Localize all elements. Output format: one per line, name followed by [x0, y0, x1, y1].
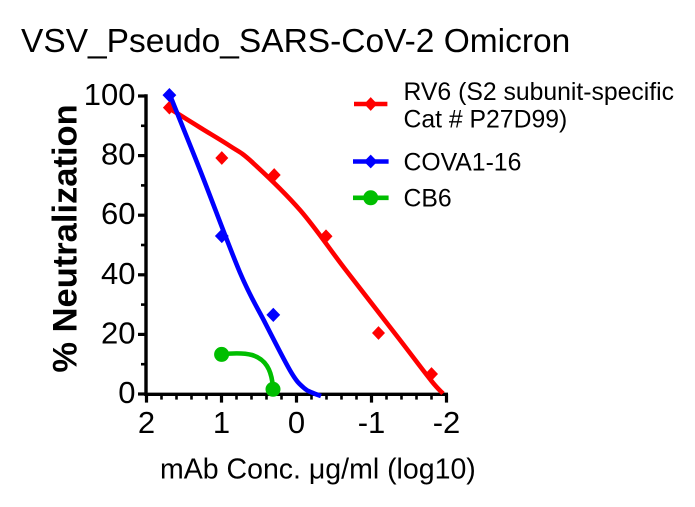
x axis line: [144, 393, 448, 396]
svg-text:60: 60: [101, 196, 135, 231]
svg-text:VSV_Pseudo_SARS-CoV-2 Omicron: VSV_Pseudo_SARS-CoV-2 Omicron: [21, 23, 570, 60]
y tick labels: [84, 77, 136, 410]
svg-text:-1: -1: [358, 405, 386, 440]
blue data markers (diamonds): [163, 88, 281, 322]
x tick labels: [138, 405, 460, 440]
svg-text:1: 1: [213, 405, 230, 440]
svg-text:mAb Conc. μg/ml (log10): mAb Conc. μg/ml (log10): [160, 453, 476, 485]
svg-text:100: 100: [84, 77, 136, 112]
red data markers (diamonds): [163, 101, 438, 381]
blue legend item: [353, 159, 389, 164]
y minor ticks: [141, 126, 146, 364]
svg-text:0: 0: [288, 405, 305, 440]
svg-text:Cat # P27D99): Cat # P27D99): [404, 106, 568, 133]
svg-text:-2: -2: [433, 405, 461, 440]
x major ticks: [147, 394, 447, 403]
svg-text:80: 80: [101, 137, 135, 172]
y axis line: [144, 94, 147, 396]
x minor ticks: [162, 394, 432, 400]
svg-text:CB6: CB6: [404, 186, 452, 213]
y major ticks: [138, 96, 146, 394]
svg-text:% Neutralization: % Neutralization: [46, 104, 84, 372]
blue fit curve: [170, 94, 322, 396]
green legend item: [353, 196, 389, 201]
svg-text:2: 2: [138, 405, 155, 440]
svg-text:40: 40: [101, 256, 135, 291]
green data markers (circles): [214, 347, 280, 397]
green fit curve: [222, 353, 273, 388]
svg-text:COVA1-16: COVA1-16: [404, 149, 522, 176]
svg-text:RV6 (S2 subunit-specific: RV6 (S2 subunit-specific: [404, 79, 675, 106]
red fit curve: [168, 108, 443, 394]
red legend item: [354, 102, 387, 107]
svg-text:0: 0: [118, 375, 135, 410]
svg-text:20: 20: [101, 315, 135, 350]
